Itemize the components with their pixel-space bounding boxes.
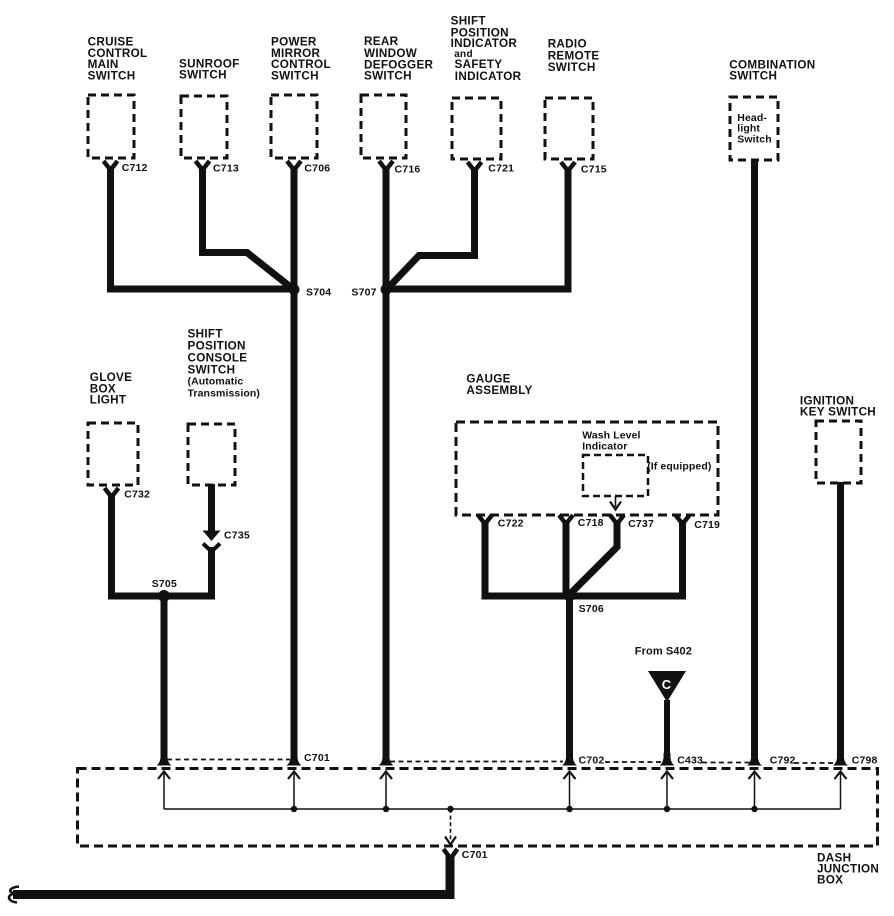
wire: C735 down and left to splice S705	[164, 547, 212, 596]
connector C716 funnel symbol	[379, 161, 393, 170]
svg-text:Indicator: Indicator	[582, 440, 627, 452]
connector C732 funnel symbol	[105, 488, 119, 497]
drop line x=386	[385, 773, 387, 809]
svg-text:C718: C718	[578, 517, 604, 529]
label: CRUISE CONTROL MAIN SWITCH	[88, 36, 148, 83]
svg-text:C: C	[662, 677, 672, 692]
splice S707	[381, 284, 392, 295]
wire: C706 straight down to splice S704	[291, 166, 298, 289]
svg-text:C702: C702	[579, 755, 605, 767]
wire: ignition key switch down to dash junction box C798	[837, 482, 844, 759]
svg-text:Switch: Switch	[737, 133, 771, 145]
wire: C722 down to gauge ground bus	[482, 520, 489, 596]
off-page connector triangle C (from S402)	[648, 671, 686, 702]
label: POWER MIRROR CONTROL SWITCH	[271, 36, 331, 83]
chevron arrow up at x=386	[380, 772, 392, 780]
off-page hook at left end of wire	[9, 887, 19, 903]
bus junction dot at x=294	[291, 806, 297, 812]
splice S706	[564, 590, 576, 602]
svg-text:C712: C712	[122, 162, 148, 174]
chevron arrow up at x=754.5	[749, 772, 761, 780]
svg-text:SWITCH: SWITCH	[88, 69, 136, 82]
svg-text:C706: C706	[304, 163, 330, 175]
connector entry arrow C701	[287, 753, 302, 766]
label: COMBINATION SWITCH	[729, 59, 815, 83]
wire: C701 exit down and left off page	[13, 855, 450, 895]
label: IGNITION KEY SWITCH	[800, 394, 876, 418]
svg-text:C701: C701	[462, 849, 488, 861]
connector entry arrow C433	[660, 753, 675, 766]
svg-text:S704: S704	[306, 287, 331, 299]
wire: splice S704 down to dash junction box C701	[291, 289, 298, 759]
svg-text:C716: C716	[395, 164, 421, 176]
svg-text:C715: C715	[581, 164, 607, 176]
assembly box: gauge assembly	[456, 422, 718, 515]
svg-text:KEY SWITCH: KEY SWITCH	[800, 406, 876, 419]
label: SUNROOF SWITCH	[179, 58, 240, 82]
wire: C721 down, left, diagonal to splice S707	[387, 167, 475, 289]
wire: combination switch down to dash junction box C792	[751, 159, 758, 759]
bus junction dot at x=450.5	[447, 806, 453, 812]
in-line connector C735 (male arrow into female cup)	[203, 531, 221, 552]
chevron arrow up at x=164	[158, 772, 170, 780]
component box: wash level indicator	[583, 455, 648, 496]
exit drop line x=450.5	[450, 809, 452, 841]
drop line x=569.5	[569, 773, 571, 809]
switch box: radio remote switch	[545, 98, 593, 159]
switch box: combination switch	[730, 97, 778, 160]
bus junction dot at x=569.5	[566, 806, 572, 812]
wire: C718 down to splice S706	[563, 520, 570, 596]
bus junction dot at x=386	[383, 806, 389, 812]
connector C722 funnel symbol	[478, 515, 492, 524]
label: REAR WINDOW DEFOGGER SWITCH	[364, 35, 434, 83]
fine dashed connector row line across junction box top	[167, 760, 837, 764]
wire: C719 down to gauge ground bus	[679, 520, 686, 596]
wire: C716 straight down through splice S707 to dash junction box	[383, 166, 390, 759]
switch box: shift position indicator / safety indicator	[452, 98, 501, 159]
dash junction box (dashed outline)	[78, 769, 878, 847]
svg-text:INDICATOR: INDICATOR	[451, 37, 518, 50]
svg-text:C719: C719	[694, 519, 720, 531]
label: RADIO REMOTE SWITCH	[548, 38, 600, 74]
switch box: ignition key switch	[816, 421, 861, 483]
svg-text:(Automatic: (Automatic	[188, 375, 244, 387]
arrow: wash level indicator to connector C737	[610, 496, 621, 510]
wire: C712 down and right to splice S704	[111, 166, 292, 289]
connector entry arrow (S707 wire)	[379, 753, 394, 766]
svg-text:C798: C798	[852, 755, 878, 767]
splice S705	[158, 590, 170, 602]
svg-text:C713: C713	[213, 163, 239, 175]
label: SHIFT POSITION CONSOLE SWITCH (Automatic Transmission)	[188, 328, 261, 400]
switch box: sunroof switch	[181, 96, 227, 158]
connector C701 exit symbol below junction box	[444, 849, 458, 859]
drop line x=164	[163, 773, 165, 809]
label: GAUGE ASSEMBLY	[466, 373, 532, 397]
drop line x=667	[666, 773, 668, 809]
svg-text:SWITCH: SWITCH	[179, 69, 227, 82]
switch box: cruise control main switch	[88, 95, 134, 158]
svg-text:C732: C732	[124, 489, 150, 501]
chevron arrow up at x=569.5	[564, 772, 576, 780]
label: Wash Level Indicator	[582, 430, 640, 453]
bus junction dot at x=667	[664, 806, 670, 812]
chevron arrow up at x=840.5	[835, 772, 847, 780]
svg-text:C737: C737	[628, 518, 654, 530]
drop line x=294	[293, 773, 295, 809]
svg-text:ASSEMBLY: ASSEMBLY	[466, 384, 532, 397]
wire: splice S706 down to dash junction box C702	[566, 596, 573, 759]
svg-text:SWITCH: SWITCH	[548, 61, 596, 74]
connector entry arrow C798	[833, 753, 848, 766]
label: SHIFT POSITION INDICATOR and SAFETY INDICATOR	[451, 15, 522, 83]
chevron arrow up at x=294	[288, 772, 300, 780]
internal junction box wiring: up-chevrons, drop lines and bus	[158, 772, 847, 845]
svg-text:S705: S705	[152, 578, 177, 590]
lamp box: glove box light	[88, 423, 138, 485]
connector C719 funnel symbol	[676, 515, 690, 524]
connector C713 funnel symbol	[196, 161, 210, 170]
wire: C715 down and left to splice S707	[386, 167, 568, 289]
drop line x=754.5	[754, 773, 756, 809]
drop line x=840.5	[840, 773, 842, 809]
svg-text:C722: C722	[498, 518, 524, 530]
internal bus line	[164, 808, 841, 810]
label: Head-light Switch (inside combination switch box)	[737, 112, 771, 146]
label: DASH JUNCTION BOX	[817, 851, 879, 886]
bus junction dot at x=754.5	[751, 806, 757, 812]
switch box: rear window defogger switch	[361, 95, 406, 158]
svg-text:(If equipped): (If equipped)	[647, 461, 711, 473]
chevron arrow down at exit	[445, 837, 456, 845]
wire: gauge ground bus horizontal through splice S706	[482, 593, 687, 600]
svg-text:S706: S706	[579, 603, 604, 615]
connector entry arrow C792	[747, 753, 762, 766]
svg-text:From S402: From S402	[635, 646, 692, 658]
svg-text:C721: C721	[488, 163, 514, 175]
svg-text:BOX: BOX	[817, 873, 843, 886]
switch box: power mirror control switch	[271, 95, 317, 158]
svg-text:S707: S707	[351, 287, 376, 299]
svg-text:C735: C735	[224, 530, 250, 542]
wire: glove box light down to splice S705	[112, 493, 165, 596]
chevron arrow up at x=667	[661, 772, 673, 780]
connector C712 funnel symbol	[104, 161, 118, 170]
wire: C713 down, right, diagonal to splice S704	[203, 166, 294, 289]
svg-text:Transmission): Transmission)	[188, 387, 261, 399]
connector C718 funnel symbol	[559, 515, 573, 524]
connector C706 funnel symbol	[287, 161, 301, 170]
label: GLOVE BOX LIGHT	[90, 371, 132, 407]
connector entry arrow (S705 wire into junction box)	[157, 753, 172, 766]
connector entry arrow C702	[562, 753, 577, 766]
svg-text:INDICATOR: INDICATOR	[455, 70, 522, 83]
svg-text:LIGHT: LIGHT	[90, 394, 127, 407]
svg-text:SWITCH: SWITCH	[729, 69, 777, 82]
svg-text:C792: C792	[770, 755, 796, 767]
connector C715 funnel symbol	[561, 162, 575, 171]
connector C737 funnel symbol	[610, 515, 624, 524]
wire: console switch down to in-line connector C735	[208, 484, 215, 531]
svg-text:C433: C433	[677, 755, 703, 767]
svg-text:C701: C701	[304, 752, 330, 764]
switch box: shift position console switch	[188, 424, 235, 485]
svg-text:SWITCH: SWITCH	[364, 70, 412, 83]
svg-text:SWITCH: SWITCH	[271, 69, 319, 82]
wire: splice S705 down to dash junction box	[161, 596, 168, 759]
wire: triangle C down to dash junction box C433	[664, 700, 670, 759]
wire: C737 down and diagonal to splice S706	[572, 520, 617, 592]
splice S704	[289, 284, 300, 295]
connector C721 funnel symbol	[468, 162, 482, 171]
